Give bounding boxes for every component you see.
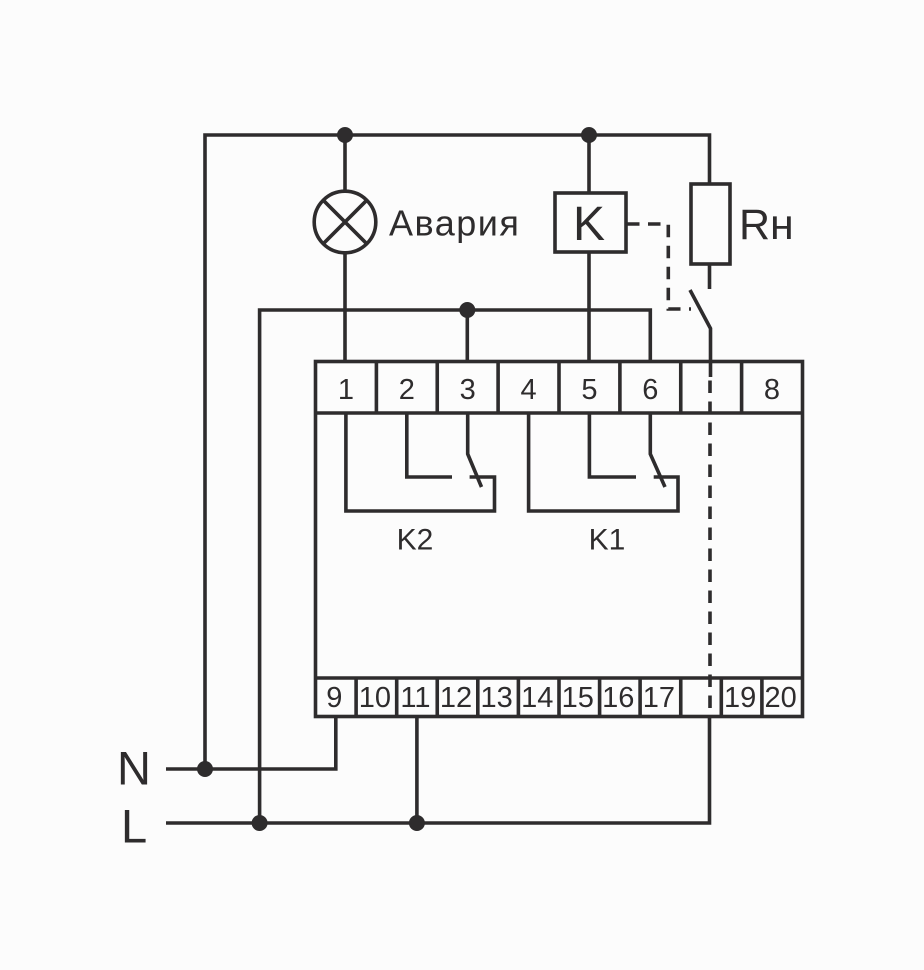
svg-text:N: N	[117, 742, 151, 795]
svg-text:20: 20	[764, 682, 796, 714]
svg-text:17: 17	[643, 682, 675, 714]
svg-text:15: 15	[562, 682, 594, 714]
svg-text:Rн: Rн	[739, 201, 794, 249]
svg-text:4: 4	[521, 374, 537, 406]
svg-text:K1: K1	[589, 524, 626, 557]
svg-text:13: 13	[480, 682, 512, 714]
svg-text:12: 12	[440, 682, 472, 714]
svg-text:Авария: Авария	[389, 203, 520, 244]
svg-text:5: 5	[581, 374, 597, 406]
svg-text:9: 9	[326, 682, 342, 714]
svg-text:8: 8	[764, 374, 780, 406]
svg-text:19: 19	[724, 682, 756, 714]
svg-text:14: 14	[521, 682, 553, 714]
svg-text:2: 2	[399, 374, 415, 406]
svg-text:10: 10	[359, 682, 391, 714]
svg-text:K: K	[573, 198, 605, 251]
svg-text:L: L	[121, 800, 147, 853]
svg-text:K2: K2	[397, 524, 434, 557]
svg-text:3: 3	[460, 374, 476, 406]
svg-text:16: 16	[602, 682, 634, 714]
svg-text:1: 1	[338, 374, 354, 406]
svg-text:6: 6	[642, 374, 658, 406]
svg-text:11: 11	[400, 682, 430, 714]
